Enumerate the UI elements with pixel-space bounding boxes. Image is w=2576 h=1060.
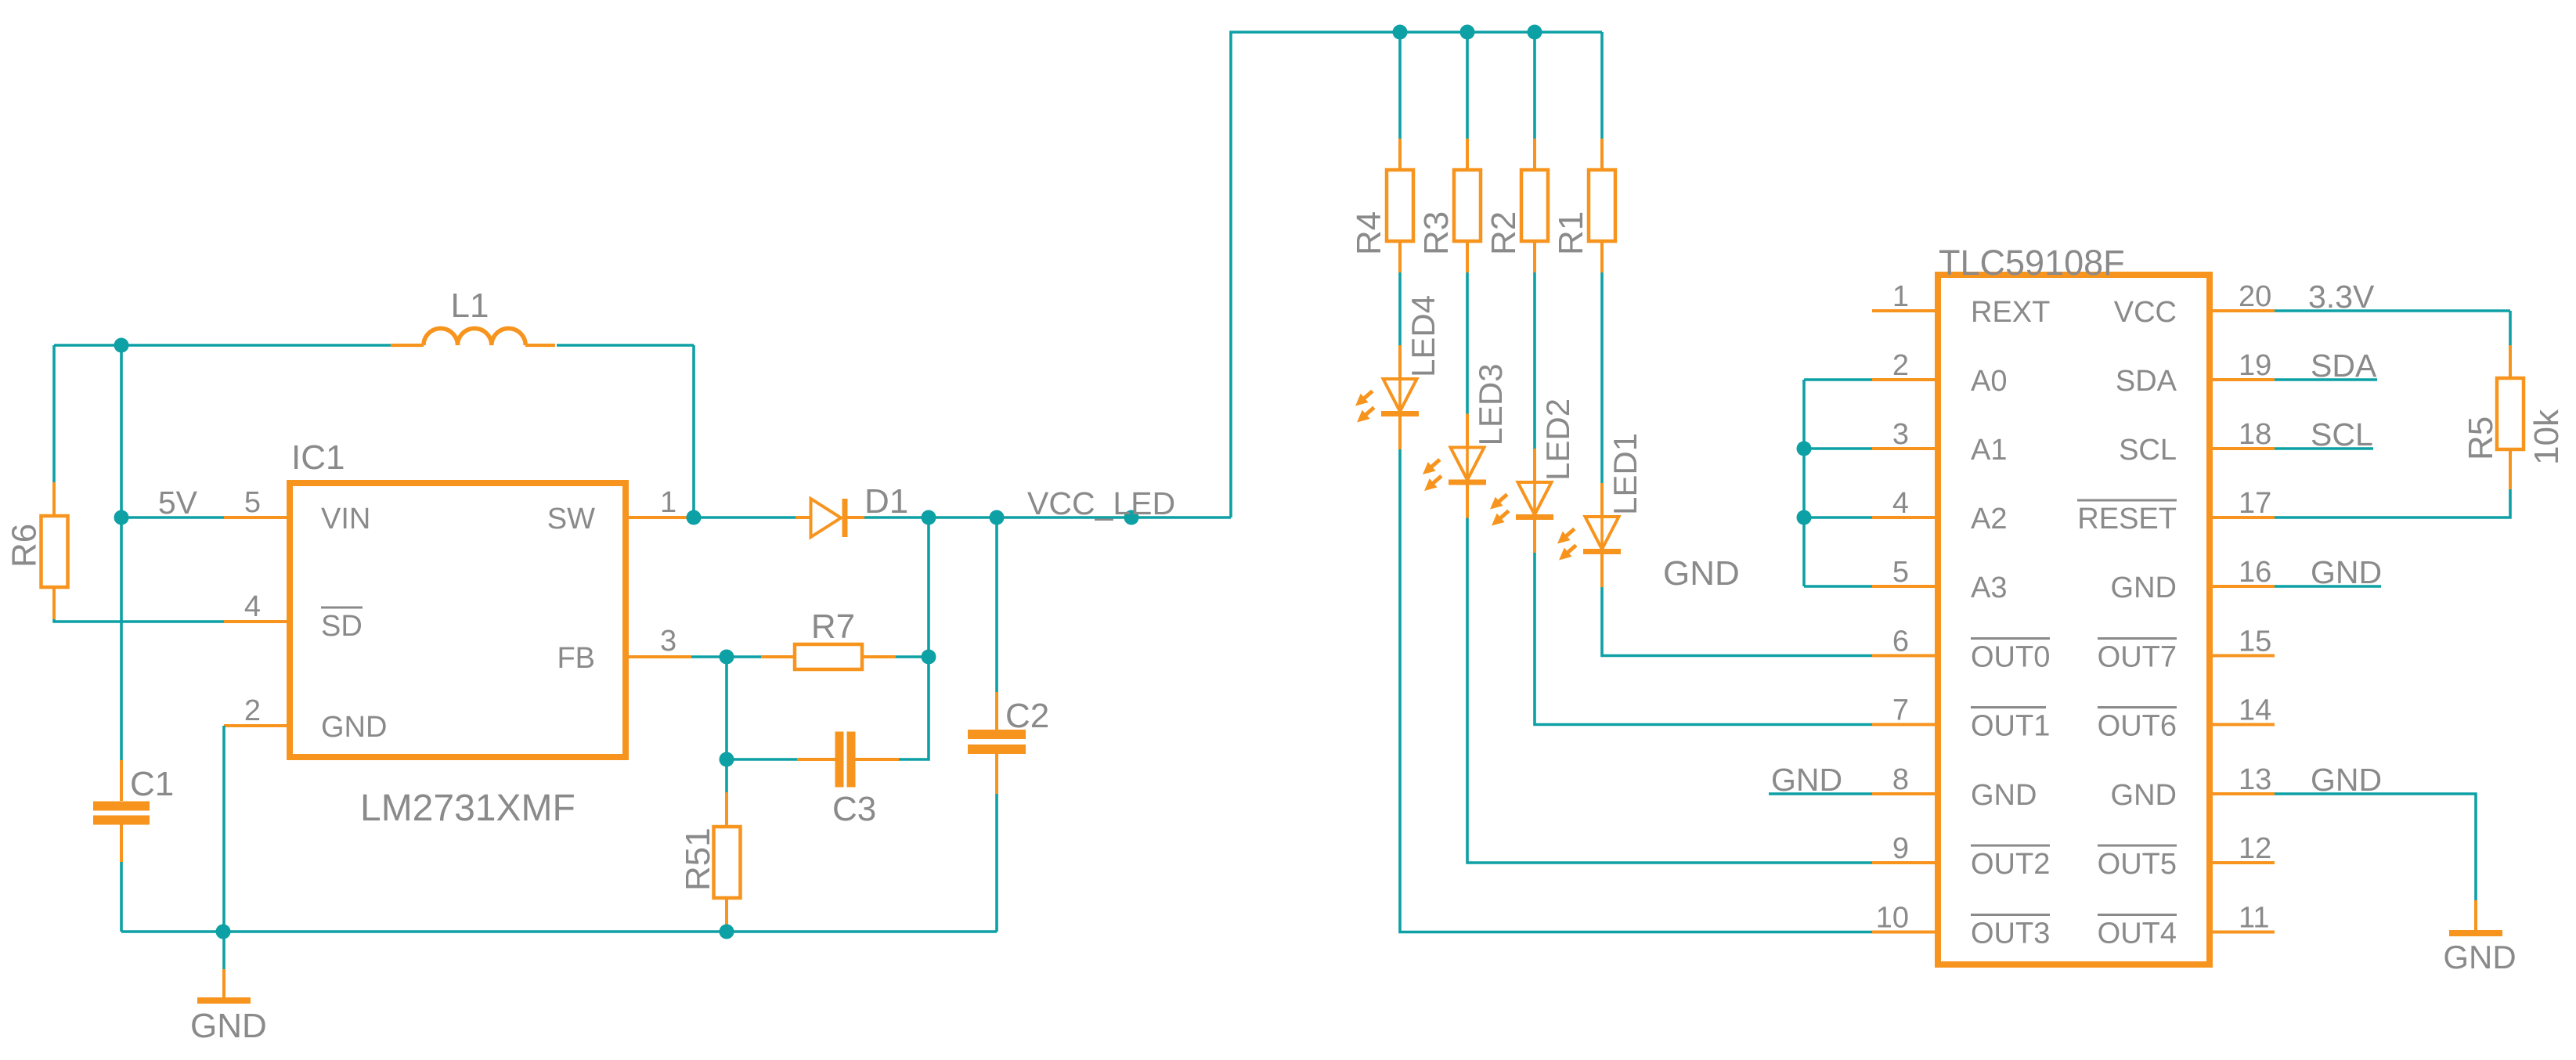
pin label OUT0 (1971, 639, 2050, 674)
pin label OUT1 (1971, 708, 2050, 743)
wire FB junction down (725, 657, 728, 759)
wire rail to R3 (1466, 32, 1469, 139)
wire LED3 to TLC pin (1467, 518, 1872, 864)
pin 11 stub (2210, 931, 2275, 934)
pin 4 stub (1872, 516, 1937, 519)
svg-text:LED2: LED2 (1539, 398, 1576, 481)
svg-text:1: 1 (660, 486, 676, 519)
wire GND pin 16 (2275, 585, 2381, 588)
pin 4 stub (224, 620, 290, 623)
wire R2 to LED2 (1533, 272, 1536, 449)
node 5V junction (114, 510, 129, 525)
R5 top lead (2509, 345, 2512, 378)
node SW junction (687, 510, 702, 525)
svg-text:4: 4 (244, 590, 261, 623)
LED LED4 (1381, 379, 1419, 416)
light arrows LED1 (1553, 525, 1580, 564)
R51 top lead (725, 792, 728, 827)
wire ground rail (121, 930, 997, 933)
pin label OUT2 (1971, 845, 2050, 881)
LED4 anode lead (1398, 345, 1402, 379)
resistor R3 (1454, 170, 1481, 241)
wire FB junction to R7 (727, 655, 761, 658)
IC U2 TLC59108F body (1938, 275, 2210, 964)
wire LED4 to TLC pin (1400, 449, 1872, 932)
wire A2 (1804, 516, 1872, 519)
pin label SD (321, 608, 363, 643)
node C3 junction (720, 752, 734, 767)
svg-text:R7: R7 (811, 608, 855, 646)
pin stub (1872, 861, 1937, 864)
R7 left lead (761, 655, 795, 658)
C2 top lead (995, 692, 998, 730)
diode D1 (811, 499, 848, 537)
svg-text:OUT5: OUT5 (2098, 848, 2177, 881)
pin 16 stub (2210, 585, 2275, 588)
wire A3 (1804, 585, 1872, 588)
svg-text:L1: L1 (451, 287, 489, 325)
wire address bus vertical (1802, 380, 1806, 586)
inductor L1 (391, 329, 555, 346)
R2 top lead (1533, 139, 1536, 170)
wire 5V node to C1 (120, 345, 123, 760)
svg-text:R4: R4 (1350, 211, 1388, 255)
pin 5 stub (224, 516, 290, 519)
pin 18 stub (2210, 447, 2275, 450)
pin 19 stub (2210, 378, 2275, 381)
wire R7 to junction (896, 655, 929, 658)
svg-text:5V: 5V (158, 485, 198, 521)
svg-text:LED3: LED3 (1472, 363, 1509, 445)
svg-text:R51: R51 (679, 827, 717, 891)
wire D1 output down to R7 (927, 517, 930, 657)
ground GND (197, 969, 251, 1004)
pin stub (1872, 931, 1937, 934)
R51 bottom lead (725, 898, 728, 932)
svg-text:GND: GND (2311, 554, 2382, 590)
node LED rail junction (1460, 25, 1475, 40)
R4 bottom lead (1398, 241, 1402, 272)
svg-text:11: 11 (2239, 902, 2269, 935)
wire R3 to LED3 (1466, 272, 1469, 414)
wire GND pin 13 (2275, 794, 2476, 900)
wire L1 to SW node (557, 344, 694, 347)
svg-text:8: 8 (1892, 763, 1909, 796)
R5 bottom lead (2509, 449, 2512, 489)
svg-text:5: 5 (1892, 556, 1909, 589)
LED3 cathode lead (1466, 485, 1469, 518)
pin 17 stub (2210, 516, 2275, 519)
wire C3 junction to R51 (725, 759, 728, 792)
pin 3 stub (626, 655, 691, 658)
svg-text:16: 16 (2239, 556, 2271, 589)
R7 right lead (862, 655, 896, 658)
LED2 anode lead (1533, 449, 1536, 482)
node R51 ground junction (720, 925, 734, 939)
svg-text:12: 12 (2239, 832, 2271, 865)
LED LED1 (1583, 517, 1621, 554)
pin 2 stub (224, 724, 290, 727)
node ground junction (216, 925, 231, 939)
light arrows LED4 (1351, 387, 1378, 427)
pin 15 stub (2210, 654, 2275, 658)
svg-text:7: 7 (1892, 694, 1909, 727)
wire 3.3V (2275, 309, 2510, 312)
svg-text:TLC59108F: TLC59108F (1939, 243, 2125, 283)
wire C2 top (995, 517, 998, 692)
pin label OUT5 (2098, 845, 2177, 881)
capacitor C1 (93, 802, 150, 825)
svg-text:GND: GND (190, 1007, 267, 1045)
svg-text:A3: A3 (1971, 571, 2007, 604)
svg-text:15: 15 (2239, 626, 2271, 658)
LED1 anode lead (1600, 483, 1604, 517)
C3 right lead (856, 758, 900, 761)
wire C1 to ground rail (120, 862, 123, 932)
svg-text:4: 4 (1892, 487, 1909, 520)
svg-text:OUT0: OUT0 (1971, 641, 2050, 674)
wire A1 (1804, 447, 1872, 450)
C3 left lead (797, 758, 835, 761)
svg-text:OUT3: OUT3 (1971, 918, 2050, 950)
wire LED2 to TLC pin (1535, 553, 1872, 725)
svg-text:18: 18 (2239, 418, 2271, 451)
light arrows LED3 (1419, 455, 1445, 495)
D1 anode lead (796, 516, 811, 519)
wire R6 to pin 4 (54, 619, 224, 622)
pin label OUT3 (1971, 915, 2050, 950)
svg-text:GND: GND (321, 711, 387, 744)
wire 3.3V down to R5 (2509, 311, 2512, 345)
svg-text:SDA: SDA (2116, 365, 2177, 398)
resistor R6 (41, 516, 68, 587)
wire A0 (1804, 378, 1872, 381)
LED1 cathode lead (1600, 554, 1604, 587)
svg-text:3.3V: 3.3V (2308, 279, 2375, 315)
node FB junction (720, 650, 734, 665)
resistor R1 (1589, 170, 1615, 241)
resistor R51 (714, 827, 741, 898)
wire 5V rail to L1 (54, 344, 391, 347)
svg-text:10: 10 (1876, 902, 1909, 935)
pin 20 stub (2210, 309, 2275, 312)
svg-text:C2: C2 (1005, 697, 1049, 735)
R3 bottom lead (1466, 241, 1469, 272)
svg-text:OUT4: OUT4 (2098, 918, 2177, 950)
LED3 anode lead (1466, 414, 1469, 448)
svg-text:14: 14 (2239, 694, 2271, 727)
node bus A2 junction (1797, 510, 1812, 525)
svg-text:GND: GND (1971, 779, 2037, 812)
pin label OUT7 (2098, 639, 2177, 674)
svg-text:SCL: SCL (2311, 416, 2373, 452)
svg-text:SD: SD (321, 610, 363, 643)
svg-text:LM2731XMF: LM2731XMF (360, 788, 575, 829)
svg-text:3: 3 (1892, 418, 1909, 451)
svg-text:2: 2 (244, 694, 261, 727)
wire SW to D1 (694, 516, 796, 519)
svg-text:6: 6 (1892, 626, 1909, 658)
svg-text:REXT: REXT (1971, 296, 2050, 329)
pin 5 stub (1872, 585, 1937, 588)
wire GND pin 8 (1769, 792, 1872, 795)
svg-text:GND: GND (2311, 762, 2382, 798)
svg-text:19: 19 (2239, 349, 2271, 382)
svg-text:A1: A1 (1971, 434, 2007, 467)
svg-text:FB: FB (557, 642, 595, 675)
resistor R4 (1387, 170, 1413, 241)
svg-text:OUT2: OUT2 (1971, 848, 2050, 881)
svg-text:GND: GND (2111, 571, 2177, 604)
pin 3 stub (1872, 447, 1937, 450)
svg-text:13: 13 (2239, 763, 2271, 796)
light arrows LED2 (1486, 490, 1513, 530)
wire R1 to LED1 (1600, 272, 1604, 483)
svg-text:A2: A2 (1971, 503, 2007, 535)
C2 bottom lead (995, 754, 998, 794)
resistor R5 (2497, 378, 2524, 449)
D1 cathode lead (848, 516, 865, 519)
svg-text:GND: GND (2111, 779, 2177, 812)
node junction top rail (114, 338, 129, 353)
R3 top lead (1466, 139, 1469, 170)
C1 top lead (120, 760, 123, 801)
pin label RESET (2077, 500, 2177, 535)
resistor R7 (795, 644, 862, 669)
wire C2 bottom (995, 794, 998, 932)
wire pin 2 to ground rail (222, 726, 225, 932)
wire to GND symbol (222, 932, 225, 969)
node R7 right junction (922, 650, 936, 665)
svg-text:IC1: IC1 (291, 438, 345, 477)
C1 bottom lead (120, 825, 123, 863)
wire rail to R4 (1398, 32, 1402, 139)
node bus A1 junction (1797, 442, 1812, 456)
svg-text:SDA: SDA (2311, 348, 2377, 384)
svg-text:A0: A0 (1971, 365, 2007, 398)
svg-text:20: 20 (2239, 280, 2271, 313)
svg-text:R2: R2 (1485, 211, 1523, 255)
wire SW node vertical (692, 345, 695, 517)
svg-text:VIN: VIN (321, 503, 370, 535)
wire to C3 (727, 758, 797, 761)
svg-text:R3: R3 (1417, 211, 1456, 255)
svg-text:R6: R6 (5, 524, 44, 568)
pin 12 stub (2210, 861, 2275, 864)
svg-text:17: 17 (2239, 487, 2271, 520)
svg-text:C3: C3 (832, 790, 876, 828)
svg-text:LED4: LED4 (1405, 295, 1441, 377)
wire FB (691, 655, 727, 658)
svg-text:LED1: LED1 (1607, 433, 1643, 515)
wire VCC_LED to LED rail (1231, 32, 1602, 517)
wire R5 to RESET pin 17 (2275, 489, 2510, 517)
R1 top lead (1600, 139, 1604, 170)
svg-text:OUT6: OUT6 (2098, 710, 2177, 743)
pin stub (1872, 654, 1937, 658)
R4 top lead (1398, 139, 1402, 170)
svg-text:9: 9 (1892, 832, 1909, 865)
wire rail to R2 (1533, 32, 1536, 139)
svg-text:5: 5 (244, 486, 261, 519)
svg-text:SCL: SCL (2119, 434, 2177, 467)
node D1 output junction (922, 510, 936, 525)
pin 14 stub (2210, 723, 2275, 726)
wire 5V to VIN (121, 516, 224, 519)
pin 8 stub (1872, 792, 1937, 795)
wire VCC_LED net (864, 516, 1231, 519)
LED LED2 (1516, 482, 1553, 520)
svg-text:3: 3 (660, 625, 676, 658)
pin label OUT4 (2098, 915, 2177, 950)
svg-text:D1: D1 (864, 482, 908, 521)
pin stub (1872, 723, 1937, 726)
R1 bottom lead (1600, 241, 1604, 272)
wire SDA (2275, 378, 2377, 381)
LED LED3 (1449, 448, 1486, 485)
svg-text:R5: R5 (2462, 416, 2500, 460)
wire R4 to LED4 (1398, 272, 1402, 345)
svg-text:OUT7: OUT7 (2098, 641, 2177, 674)
op-amp IC1 LM2731XMF body (290, 483, 626, 757)
svg-text:R1: R1 (1552, 211, 1590, 255)
R6 bottom lead (52, 587, 56, 619)
ground GND (right) (2449, 900, 2502, 936)
svg-text:2: 2 (1892, 349, 1909, 382)
capacitor C2 (968, 730, 1026, 754)
wire top rail to R6 (52, 345, 56, 482)
pin 1 stub (626, 516, 694, 519)
svg-text:OUT1: OUT1 (1971, 710, 2050, 743)
pin label OUT6 (2098, 708, 2177, 743)
svg-text:GND: GND (2443, 939, 2516, 975)
svg-text:GND: GND (1771, 762, 1842, 798)
node LED rail junction (1393, 25, 1408, 40)
svg-text:RESET: RESET (2077, 503, 2177, 535)
pin 1 stub (1872, 309, 1937, 312)
wire C3 to R7 right junction (899, 657, 929, 759)
LED4 cathode lead (1398, 416, 1402, 449)
node LED rail junction (1528, 25, 1542, 40)
wire SCL (2275, 447, 2373, 450)
svg-text:GND: GND (1663, 554, 1740, 593)
resistor R2 (1521, 170, 1548, 241)
node VCC_LED label junction (1124, 510, 1139, 525)
R2 bottom lead (1533, 241, 1536, 272)
svg-text:10k: 10k (2527, 409, 2566, 465)
capacitor C3 (835, 732, 856, 788)
R6 top lead (52, 482, 56, 516)
wire LED1 to TLC pin (1602, 587, 1872, 656)
node C2 junction (990, 510, 1005, 525)
svg-text:C1: C1 (130, 765, 174, 803)
pin 2 stub (1872, 378, 1937, 381)
wire rail to R1 (1600, 32, 1604, 139)
LED2 cathode lead (1533, 520, 1536, 553)
svg-text:VCC: VCC (2114, 296, 2177, 329)
svg-text:1: 1 (1892, 280, 1909, 313)
svg-text:VCC_LED: VCC_LED (1027, 485, 1175, 521)
svg-text:SW: SW (547, 503, 595, 535)
pin 13 stub (2210, 792, 2275, 795)
